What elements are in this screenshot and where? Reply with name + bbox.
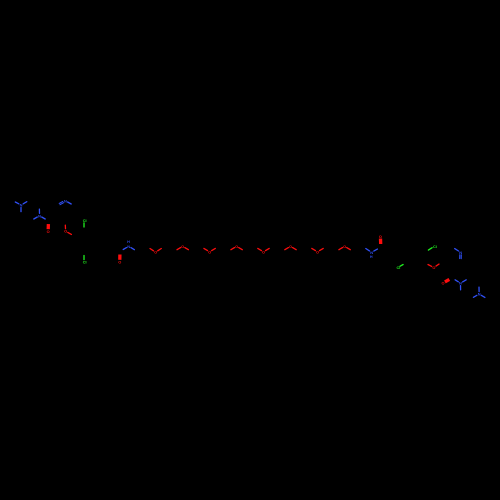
svg-text:Cl: Cl <box>433 244 437 249</box>
bond O-CH2 (PEG6 left) <box>285 248 289 250</box>
svg-text:O: O <box>289 244 292 249</box>
bond Cl-C (right ring top) <box>428 248 432 250</box>
bond Cl-C (right ring bottom) <box>400 265 403 267</box>
bond N-C ring (right piperazine) <box>463 280 467 282</box>
svg-text:O: O <box>64 229 67 234</box>
bond Cl-C (left ring bottom) <box>83 256 85 260</box>
bond O-CH2 (PEG7 left) <box>312 248 316 250</box>
svg-text:O: O <box>432 265 435 270</box>
bond N-C ring (right piperazine) <box>478 287 480 291</box>
svg-text:O: O <box>181 244 184 249</box>
svg-text:Cl: Cl <box>83 260 87 265</box>
bond N-C ring (left piperazine) <box>34 217 38 219</box>
svg-text:O: O <box>262 249 265 254</box>
bond C=O double (right amide) <box>379 239 383 244</box>
bond O-CH2 (PEG2 right) <box>185 248 189 250</box>
svg-text:O: O <box>343 244 346 249</box>
svg-text:O: O <box>47 229 50 234</box>
bond O-CH2 (PEG4 left) <box>231 248 235 250</box>
svg-text:N: N <box>459 281 462 286</box>
bond N-C(=O) (left piperazine amide) <box>42 217 46 219</box>
bond N-C(=O) (right piperazine amide) <box>455 280 458 282</box>
svg-text:N: N <box>478 292 481 297</box>
bond O-CH2 (PEG8 left) <box>339 248 343 250</box>
bond N-C aromatic (left pyridine) <box>68 202 72 204</box>
bond N-C(=O) (left amide) <box>123 248 126 250</box>
bond O-CH2 (PEG8 right) <box>347 248 351 250</box>
svg-text:O: O <box>208 249 211 254</box>
bond N-C aromatic (right pyridine) <box>455 249 459 251</box>
bond O-CH2 (PEG1 left) <box>150 249 154 251</box>
bond N=C aromatic (left pyridine) <box>59 201 63 204</box>
bond O-CH2 (PEG2 left) <box>177 248 181 250</box>
bond N-CH2 (left amide to chain) <box>131 248 135 250</box>
bond N-C ring (left piperazine) <box>23 202 27 204</box>
bond O-C to phenyl (left ether) <box>68 232 72 234</box>
bond O-CH2 (PEG3 left) <box>204 248 208 250</box>
bond N-CH3 (left piperazine methyl) <box>15 202 18 204</box>
svg-text:O: O <box>379 234 382 239</box>
bond O-CH2 (PEG5 right) <box>266 248 270 250</box>
svg-text:N: N <box>459 250 462 255</box>
svg-text:O: O <box>118 260 121 265</box>
bond C=O double (left piperazine amide) <box>47 224 51 229</box>
svg-text:N: N <box>127 244 130 249</box>
bond O-CH2 (PEG3 right) <box>212 248 216 250</box>
bond N=C aromatic (right pyridine) <box>460 255 462 259</box>
bond O-CH2 (PEG6 right) <box>293 248 297 250</box>
svg-text:N: N <box>38 213 41 218</box>
svg-text:O: O <box>154 250 157 255</box>
svg-text:O: O <box>316 249 319 254</box>
bond O-C to pyridine (right ether) <box>436 264 439 266</box>
bond O-CH2 (PEG4 right) <box>239 248 243 250</box>
bond O-C to pyridine (left ether) <box>64 225 66 229</box>
svg-text:N: N <box>20 203 23 208</box>
bond N-CH3 (right piperazine methyl) <box>481 295 485 297</box>
bond C=O double (left amide) <box>118 255 121 260</box>
bond N-C ring (left piperazine) <box>38 209 40 213</box>
svg-text:Cl: Cl <box>83 218 87 223</box>
bond O-CH2 (PEG1 right) <box>158 249 162 251</box>
svg-text:N: N <box>64 198 67 203</box>
bond O-CH2 (PEG5 left) <box>258 248 262 250</box>
bond N-C ring (left piperazine) <box>20 208 22 212</box>
svg-text:Cl: Cl <box>396 265 400 270</box>
bond N-C ring (right piperazine) <box>473 295 477 297</box>
bond N-C ring (right piperazine) <box>460 286 462 290</box>
svg-text:O: O <box>441 281 444 286</box>
bond O-C to phenyl (right ether) <box>428 265 432 267</box>
svg-text:O: O <box>235 244 238 249</box>
bond N-CH2 (right amide to chain) <box>366 249 370 251</box>
bond N-C(=O) (right amide) <box>374 249 378 251</box>
bond Cl-C (left ring top) <box>83 223 85 227</box>
bond C=O double (right piperazine amide) <box>445 279 449 282</box>
bond O-CH2 (PEG7 right) <box>320 248 324 250</box>
